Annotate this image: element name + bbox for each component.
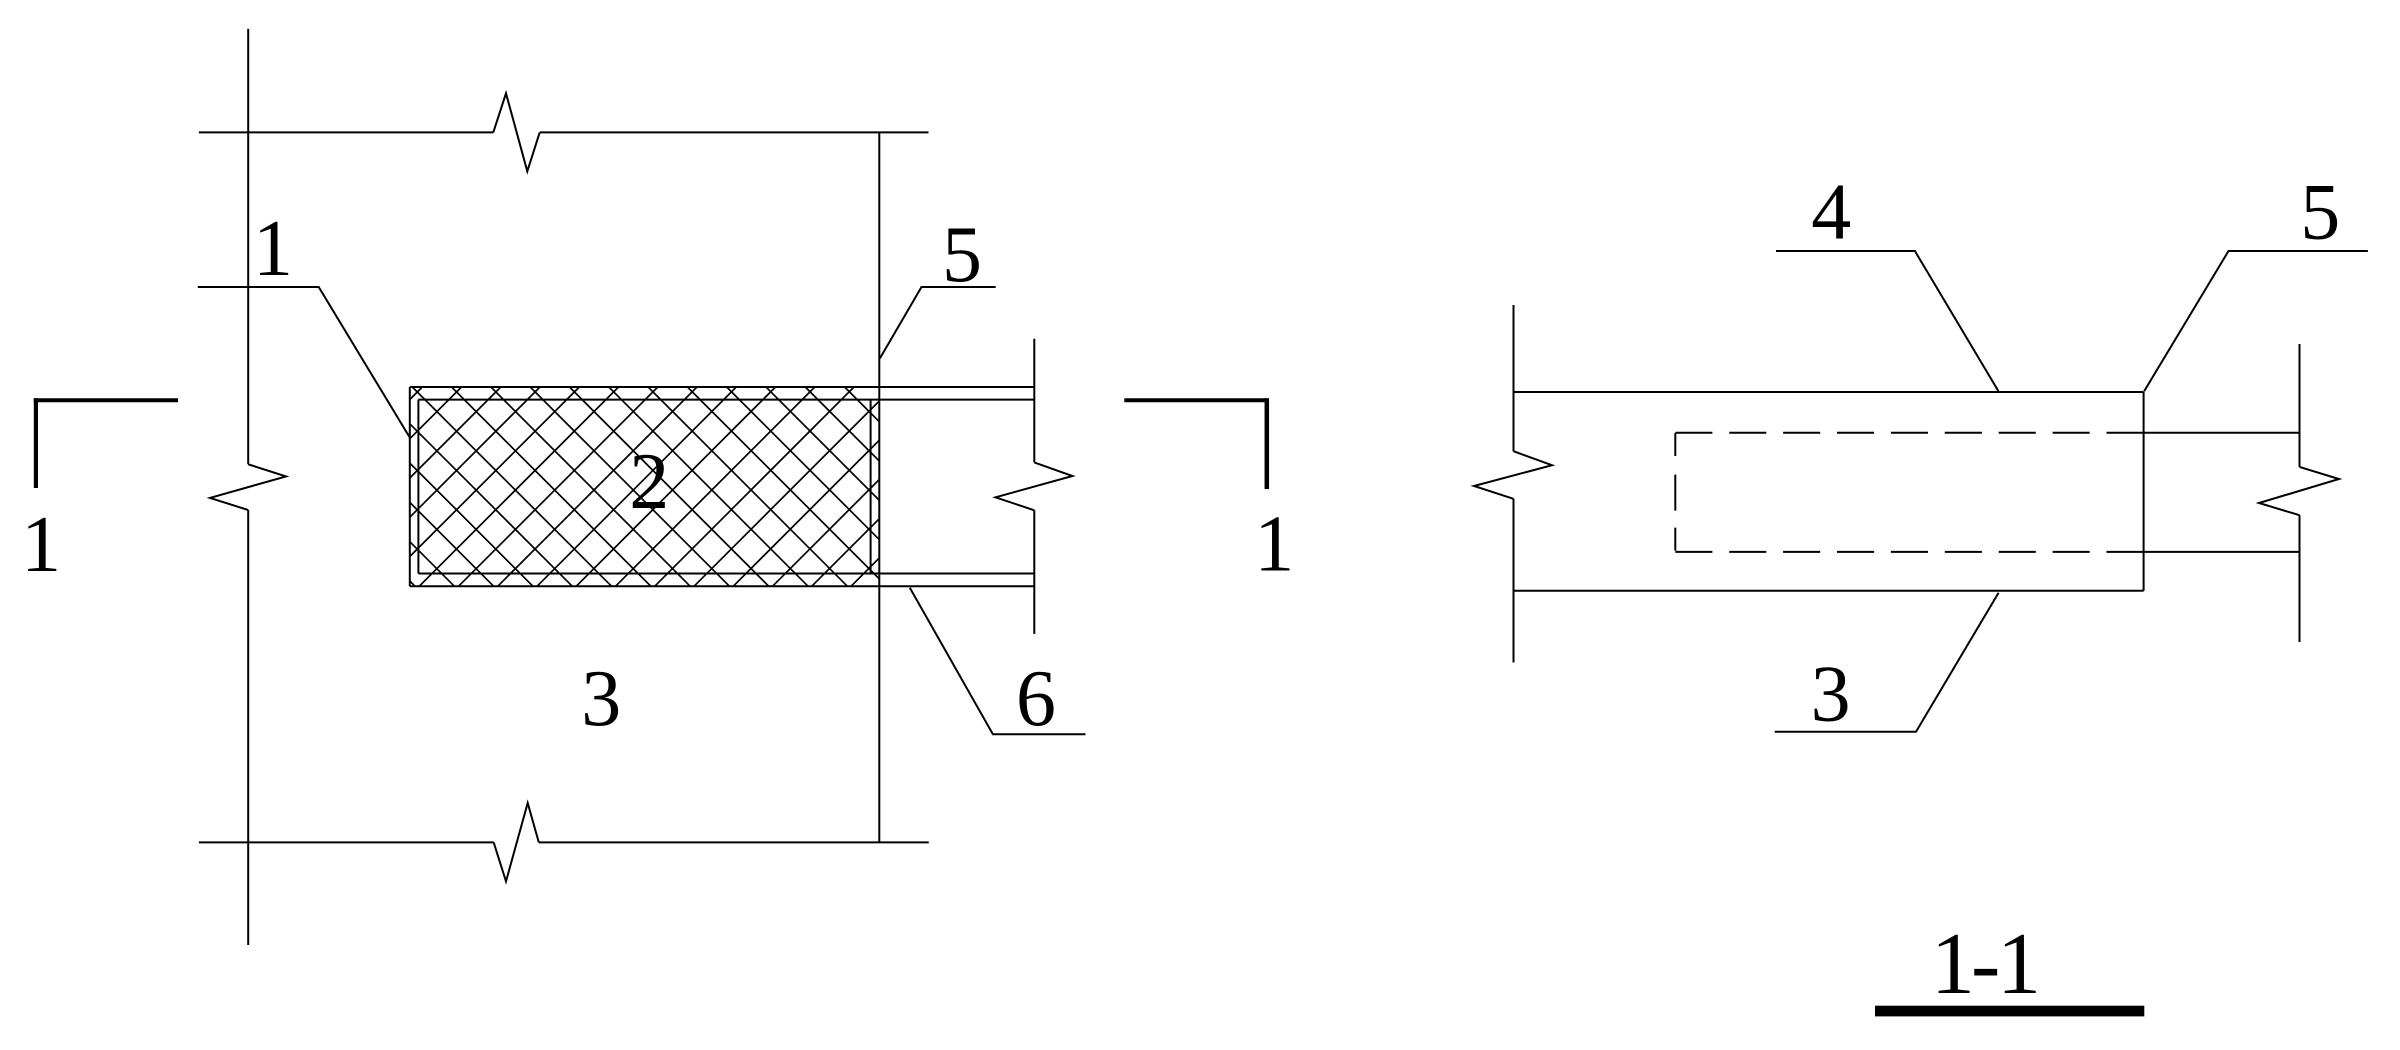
bottom floor line break zigzag (494, 803, 539, 881)
beam right break zigzag (996, 462, 1073, 510)
hidden beam dashed top line (1675, 432, 2143, 434)
beam outer top line (410, 386, 1035, 388)
svg-text:3: 3 (581, 655, 621, 743)
svg-text:1: 1 (21, 501, 61, 589)
leader for label 5 section view (2144, 251, 2368, 391)
top floor line right segment (540, 131, 929, 133)
wall left edge upper segment (247, 29, 249, 464)
bottom floor line right segment (539, 841, 929, 843)
svg-text:1: 1 (1254, 501, 1294, 589)
beam inner bottom line (418, 573, 1034, 575)
beam outer bottom line (410, 585, 1035, 587)
section title underline bar (1875, 1006, 2144, 1017)
grout block inner left edge (417, 400, 419, 574)
svg-text:2: 2 (629, 438, 669, 526)
leader for label 4 (1776, 251, 1999, 391)
leader for label 6 (910, 588, 1086, 735)
section marker 1 left horizontal bar (34, 398, 178, 402)
section marker 1 right vertical bar (1265, 398, 1270, 489)
wall left edge break zigzag (210, 464, 286, 510)
section view: beam right break lower segment (2299, 515, 2301, 642)
section marker 1 right horizontal bar (1124, 398, 1268, 402)
section view: wall top line (1514, 391, 2144, 393)
leader for label 3 section view (1775, 593, 1999, 732)
section view: wall bottom line (1514, 590, 2144, 592)
section view: wall right end edge (2143, 392, 2145, 591)
leader for label 5 (880, 287, 996, 358)
section view: beam right break upper segment (2299, 344, 2301, 467)
hidden beam dashed bottom line (1675, 551, 2143, 553)
svg-text:6: 6 (1016, 655, 1056, 743)
grout block outer left edge (409, 387, 411, 586)
svg-text:1: 1 (1997, 916, 2041, 1013)
grout block inner right edge (870, 400, 872, 574)
section view: wall left break upper segment (1513, 305, 1515, 451)
wall right edge (878, 132, 880, 842)
beam solid bottom line outside wall (2144, 551, 2300, 553)
beam right break line upper segment (1033, 339, 1035, 463)
crosshatch fill of grout block 2 (410, 387, 880, 586)
svg-text:5: 5 (942, 211, 982, 299)
beam solid top line outside wall (2144, 432, 2300, 434)
section marker 1 left vertical bar (34, 398, 38, 488)
section view: wall left break lower segment (1513, 499, 1515, 663)
svg-text:1: 1 (1931, 916, 1975, 1013)
svg-text:-: - (1971, 916, 2000, 1013)
svg-text:5: 5 (2300, 169, 2340, 257)
section view: wall left break zigzag (1474, 451, 1552, 499)
hidden beam dashed left edge (1674, 433, 1676, 552)
top floor line left segment (199, 131, 493, 133)
svg-text:1: 1 (253, 205, 293, 293)
svg-text:3: 3 (1811, 651, 1851, 739)
leader for label 1 (198, 287, 410, 438)
bottom floor line left segment (199, 841, 494, 843)
top floor line break zigzag (493, 93, 539, 171)
section view: beam right break zigzag (2259, 467, 2339, 515)
wall left edge lower segment (247, 510, 249, 945)
svg-text:4: 4 (1811, 169, 1851, 257)
beam right break line lower segment (1033, 510, 1035, 634)
beam inner top line (418, 399, 1034, 401)
